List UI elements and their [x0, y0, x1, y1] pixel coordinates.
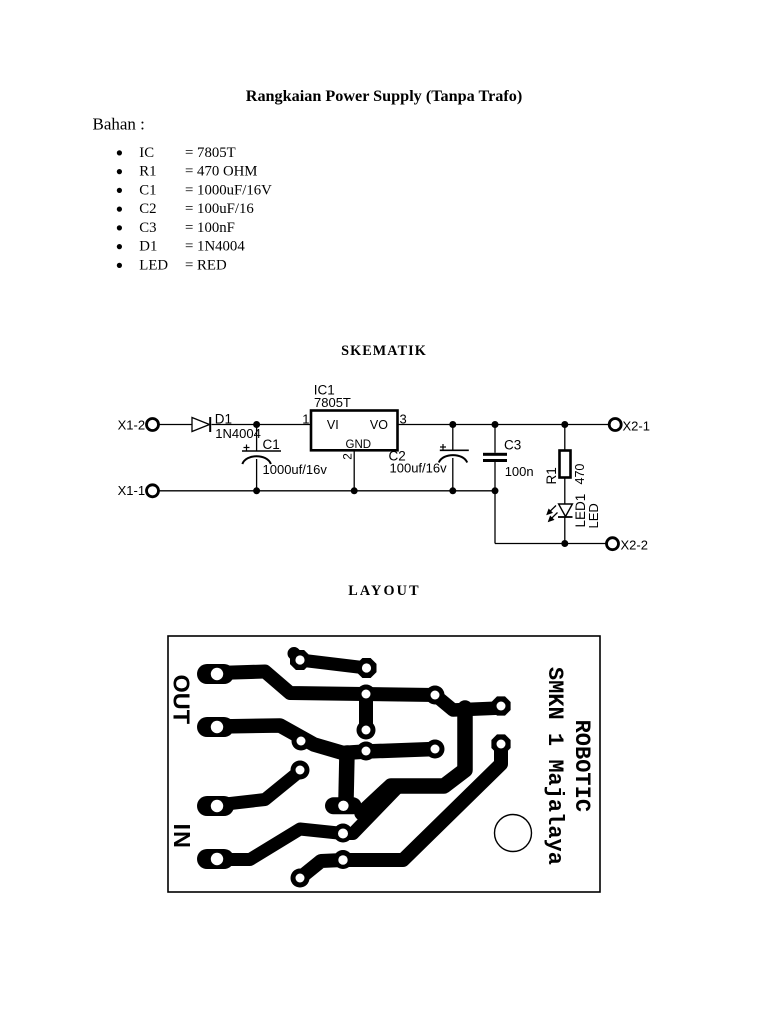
svg-text:LED: LED	[139, 257, 168, 273]
svg-text:470: 470	[573, 464, 587, 485]
svg-text:LED: LED	[586, 503, 601, 528]
svg-text:SMKN 1 Majalaya: SMKN 1 Majalaya	[542, 667, 567, 865]
svg-text:= 100nF: = 100nF	[185, 220, 235, 236]
svg-text:C2: C2	[139, 201, 156, 217]
svg-text:C1: C1	[139, 182, 156, 198]
svg-text:R1: R1	[139, 164, 156, 180]
svg-text:IC: IC	[139, 145, 154, 161]
svg-text:Rangkaian Power Supply (Tanpa: Rangkaian Power Supply (Tanpa Trafo)	[246, 87, 522, 105]
svg-text:LAYOUT: LAYOUT	[348, 583, 421, 599]
svg-text:C3: C3	[139, 220, 156, 236]
svg-text:1N4004: 1N4004	[215, 426, 261, 441]
svg-text:OUT: OUT	[169, 675, 195, 725]
svg-text:= RED: = RED	[185, 257, 227, 273]
svg-text:3: 3	[400, 411, 407, 426]
svg-text:100uf/16v: 100uf/16v	[390, 460, 448, 475]
svg-text:GND: GND	[346, 439, 372, 451]
svg-text:= 100uF/16: = 100uF/16	[185, 201, 254, 217]
svg-text:ROBOTIC: ROBOTIC	[569, 720, 594, 812]
svg-text:= 1N4004: = 1N4004	[185, 239, 245, 255]
svg-text:2: 2	[341, 453, 355, 460]
svg-text:X1-1: X1-1	[118, 483, 145, 498]
svg-text:X1-2: X1-2	[118, 418, 145, 433]
svg-text:100n: 100n	[505, 464, 534, 479]
svg-text:X2-1: X2-1	[623, 418, 650, 433]
svg-text:1000uf/16v: 1000uf/16v	[263, 462, 328, 477]
svg-text:D1: D1	[215, 411, 232, 426]
svg-text:X2-2: X2-2	[621, 538, 648, 553]
svg-text:1: 1	[302, 411, 309, 426]
svg-text:C3: C3	[504, 437, 521, 452]
svg-text:D1: D1	[139, 239, 157, 255]
svg-text:VI: VI	[327, 418, 339, 432]
svg-text:= 7805T: = 7805T	[185, 145, 236, 161]
svg-text:= 1000uF/16V: = 1000uF/16V	[185, 182, 272, 198]
svg-text:VO: VO	[370, 418, 388, 432]
svg-text:7805T: 7805T	[314, 395, 351, 410]
svg-text:Bahan :: Bahan :	[93, 115, 145, 134]
svg-text:C1: C1	[263, 437, 280, 452]
svg-text:= 470 OHM: = 470 OHM	[185, 164, 257, 180]
svg-text:SKEMATIK: SKEMATIK	[341, 343, 427, 359]
svg-text:R1: R1	[544, 467, 559, 484]
svg-text:IN: IN	[169, 824, 195, 850]
